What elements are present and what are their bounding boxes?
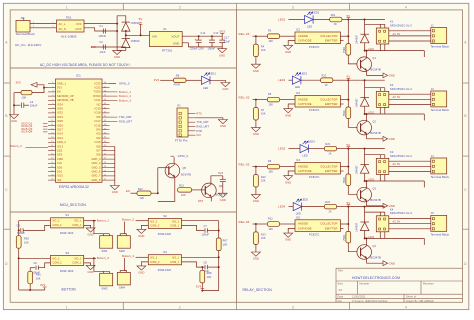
svg-text:EMITTER: EMITTER — [325, 39, 338, 43]
svg-text:3V3: 3V3 — [154, 78, 160, 82]
svg-text:NO_2: NO_2 — [53, 220, 60, 223]
svg-text:NO_1: NO_1 — [75, 220, 82, 223]
svg-text:IO2: IO2 — [57, 179, 62, 182]
svg-text:Button_4: Button_4 — [122, 254, 135, 258]
svg-text:REL-02: REL-02 — [239, 96, 250, 100]
svg-text:IO14: IO14 — [57, 133, 63, 136]
svg-text:COM_1: COM_1 — [170, 225, 180, 228]
svg-text:IO27: IO27 — [57, 129, 63, 132]
svg-text:TXD_URT: TXD_URT — [119, 115, 132, 119]
svg-text:GND_7: GND_7 — [91, 175, 101, 178]
svg-text:IO34: IO34 — [57, 103, 63, 106]
svg-text:1N5819: 1N5819 — [131, 22, 141, 25]
svg-text:Terminal Block: Terminal Block — [16, 32, 36, 36]
svg-text:IO12: IO12 — [57, 137, 63, 140]
svg-text:LED1: LED1 — [209, 72, 216, 76]
svg-text:24: 24 — [51, 179, 53, 181]
svg-text:Terminal Block: Terminal Block — [431, 108, 450, 112]
svg-text:Button_3: Button_3 — [119, 98, 131, 102]
svg-text:Button_1: Button_1 — [97, 219, 110, 223]
svg-text:GND: GND — [11, 119, 17, 123]
svg-text:1: 1 — [52, 22, 53, 24]
svg-text:GND_8: GND_8 — [91, 179, 101, 182]
svg-text:10K: 10K — [269, 40, 274, 43]
svg-text:BC547B: BC547B — [371, 255, 382, 259]
svg-text:3V3: 3V3 — [57, 87, 62, 90]
svg-text:Button_4: Button_4 — [10, 144, 22, 148]
svg-text:10K: 10K — [207, 276, 212, 279]
svg-text:R3: R3 — [268, 30, 272, 33]
svg-text:4: 4 — [405, 5, 407, 9]
svg-text:CATHODE: CATHODE — [298, 169, 312, 173]
svg-text:EMITTER: EMITTER — [325, 169, 338, 173]
svg-text:IO0: IO0 — [197, 134, 202, 137]
svg-text:COM_2: COM_2 — [150, 261, 160, 264]
svg-text:C2: C2 — [100, 41, 104, 44]
svg-text:COM_2: COM_2 — [53, 224, 63, 227]
svg-text:GND: GND — [112, 190, 118, 194]
svg-text:10K: 10K — [261, 113, 266, 116]
svg-text:GND: GND — [285, 180, 291, 184]
svg-text:GND: GND — [285, 50, 291, 54]
svg-text:10K: 10K — [269, 170, 274, 173]
svg-text:3: 3 — [52, 91, 53, 93]
svg-text:ANODE: ANODE — [298, 222, 308, 226]
svg-text:22: 22 — [51, 170, 53, 172]
svg-text:18: 18 — [51, 154, 53, 156]
svg-text:Q2: Q2 — [373, 120, 377, 123]
svg-text:5: 5 — [52, 99, 53, 101]
svg-text:NO_1: NO_1 — [172, 257, 179, 260]
svg-text:LED3: LED3 — [300, 72, 307, 75]
svg-text:3V3: 3V3 — [40, 283, 46, 287]
svg-text:26: 26 — [104, 175, 106, 177]
svg-text:3: 3 — [292, 305, 294, 309]
svg-text:ROW-1620: ROW-1620 — [60, 232, 74, 235]
svg-text:R24: R24 — [325, 201, 330, 204]
svg-text:NC: NC — [97, 103, 101, 106]
svg-text:LED1: LED1 — [278, 17, 285, 21]
svg-text:C8: C8 — [204, 262, 208, 265]
svg-text:GND_5: GND_5 — [91, 166, 101, 169]
svg-text:SRD-05VDC-SL-C: SRD-05VDC-SL-C — [390, 212, 412, 215]
svg-text:LED4: LED4 — [278, 205, 285, 209]
svg-text:1N4007: 1N4007 — [356, 98, 359, 108]
svg-text:100nF: 100nF — [17, 231, 25, 235]
svg-text:GND: GND — [389, 261, 395, 265]
svg-text:P1: P1 — [178, 105, 182, 108]
svg-text:LED4: LED4 — [308, 141, 315, 144]
svg-text:4: 4 — [52, 95, 53, 97]
svg-text:ANODE: ANODE — [298, 164, 308, 168]
svg-text:10K: 10K — [269, 228, 274, 231]
svg-text:470R: 470R — [174, 84, 181, 87]
svg-text:19: 19 — [51, 158, 53, 160]
svg-text:32: 32 — [104, 149, 106, 151]
svg-text:37: 37 — [104, 128, 106, 130]
svg-text:IO16: IO16 — [95, 124, 101, 127]
svg-text:10K: 10K — [22, 97, 27, 100]
svg-text:48: 48 — [104, 82, 106, 84]
svg-text:GND_2: GND_2 — [57, 141, 67, 144]
svg-text:CMD: CMD — [57, 158, 63, 161]
svg-text:COLLECTOR: COLLECTOR — [320, 34, 337, 38]
svg-text:IO7: IO7 — [96, 150, 101, 153]
svg-text:RXD_URT: RXD_URT — [119, 119, 132, 123]
svg-text:GND: GND — [220, 124, 226, 128]
svg-text:C17: C17 — [224, 37, 229, 40]
svg-text:SD1: SD1 — [57, 171, 63, 174]
svg-text:COM_1: COM_1 — [72, 224, 82, 227]
svg-text:10K: 10K — [261, 49, 266, 52]
svg-text:100nF: 100nF — [30, 104, 38, 107]
svg-text:Terminal Block: Terminal Block — [431, 175, 450, 179]
svg-text:41: 41 — [104, 112, 106, 114]
svg-text:A4: A4 — [339, 288, 343, 292]
svg-text:SRD-05VDC-SL-C: SRD-05VDC-SL-C — [390, 155, 412, 158]
svg-text:Terminal Block: Terminal Block — [431, 232, 450, 236]
svg-text:HOWTOELECTRONICS.COM: HOWTOELECTRONICS.COM — [352, 276, 400, 280]
svg-text:LED3: LED3 — [278, 147, 285, 151]
svg-text:IO8: IO8 — [96, 145, 101, 148]
svg-text:S2: S2 — [163, 214, 167, 218]
svg-text:PC817C: PC817C — [309, 108, 320, 112]
svg-text:GND: GND — [389, 137, 395, 141]
svg-text:C12: C12 — [201, 32, 206, 35]
svg-text:IO18: IO18 — [95, 112, 101, 115]
svg-text:R22: R22 — [322, 75, 327, 78]
svg-text:100nF: 100nF — [202, 233, 210, 236]
svg-text:IO22: IO22 — [95, 87, 101, 90]
svg-text:NO_2: NO_2 — [53, 257, 60, 260]
svg-text:AC 5V: AC 5V — [393, 163, 401, 166]
svg-text:ESP32-WROOM-32: ESP32-WROOM-32 — [59, 185, 89, 189]
svg-text:GND: GND — [88, 233, 94, 237]
svg-text:10K: 10K — [261, 237, 266, 240]
svg-text:BC547B: BC547B — [371, 198, 382, 202]
svg-text:COM_1: COM_1 — [72, 262, 82, 265]
svg-text:14: 14 — [51, 137, 53, 139]
svg-text:25: 25 — [104, 179, 106, 181]
svg-text:IC1: IC1 — [76, 74, 81, 78]
svg-text:1: 1 — [33, 22, 34, 24]
svg-text:RST: RST — [198, 200, 204, 203]
svg-text:CATHODE: CATHODE — [298, 39, 312, 43]
svg-text:1N5819: 1N5819 — [131, 40, 141, 43]
svg-text:D: D — [464, 262, 467, 266]
svg-text:IO23: IO23 — [95, 82, 101, 85]
svg-text:GND_1: GND_1 — [57, 82, 67, 85]
svg-text:SW2: SW2 — [119, 249, 125, 253]
svg-text:1: 1 — [52, 82, 53, 84]
svg-text:MCU_SECTION: MCU_SECTION — [60, 203, 86, 207]
svg-text:38: 38 — [104, 124, 106, 126]
svg-text:GND: GND — [389, 204, 395, 208]
svg-text:RT7301: RT7301 — [162, 48, 173, 52]
svg-text:AC_IN~ 110-220V: AC_IN~ 110-220V — [15, 43, 42, 47]
svg-text:R05: R05 — [24, 238, 29, 241]
svg-text:C: C — [464, 188, 467, 192]
svg-text:AC_N: AC_N — [59, 27, 67, 31]
svg-text:1: 1 — [66, 305, 68, 309]
svg-text:17: 17 — [51, 149, 53, 151]
svg-text:3: 3 — [292, 5, 294, 9]
svg-text:35: 35 — [104, 137, 106, 139]
svg-text:LED5: LED5 — [301, 199, 308, 202]
svg-text:1K: 1K — [328, 210, 331, 213]
svg-text:SW3: SW3 — [102, 287, 108, 291]
svg-text:GND: GND — [219, 53, 225, 57]
svg-text:SRD-05VDC-SL-C: SRD-05VDC-SL-C — [390, 24, 412, 27]
svg-text:C:\Users\..\ESP32V2.SchDoc: C:\Users\..\ESP32V2.SchDoc — [352, 300, 388, 303]
svg-text:ANODE: ANODE — [298, 34, 308, 38]
svg-text:COM_2: COM_2 — [150, 225, 160, 228]
svg-text:J1: J1 — [21, 16, 24, 20]
svg-text:13: 13 — [51, 133, 53, 135]
svg-text:2: 2 — [179, 305, 181, 309]
svg-text:IO15: IO15 — [95, 141, 101, 144]
svg-text:LED2: LED2 — [313, 12, 320, 15]
svg-text:NO_2: NO_2 — [150, 220, 157, 223]
svg-text:ANODE: ANODE — [298, 97, 308, 101]
svg-text:750R: 750R — [343, 110, 346, 116]
svg-text:10K: 10K — [181, 194, 186, 197]
svg-text:AC 5V: AC 5V — [393, 96, 401, 99]
svg-text:3V3: 3V3 — [219, 29, 225, 33]
svg-text:D: D — [5, 262, 8, 266]
svg-text:Title: Title — [338, 269, 344, 273]
svg-text:C3: C3 — [30, 101, 34, 104]
svg-text:R13: R13 — [261, 233, 266, 236]
svg-text:R6: R6 — [268, 93, 272, 96]
svg-text:RTS: RTS — [197, 113, 203, 116]
svg-text:GND: GND — [389, 74, 395, 78]
svg-text:1N4007: 1N4007 — [356, 165, 359, 175]
svg-text:R12: R12 — [138, 188, 143, 191]
svg-text:DTR: DTR — [197, 130, 203, 133]
svg-text:R07: R07 — [223, 240, 228, 243]
svg-text:K2: K2 — [390, 83, 394, 87]
svg-text:GPIO_0: GPIO_0 — [178, 154, 189, 158]
svg-text:EN: EN — [126, 190, 130, 193]
svg-text:23: 23 — [51, 175, 53, 177]
svg-text:REL-04: REL-04 — [239, 220, 250, 224]
svg-text:16: 16 — [51, 145, 53, 147]
svg-text:Q4: Q4 — [373, 245, 377, 248]
svg-text:GND_6: GND_6 — [91, 171, 101, 174]
svg-text:Sheet of: Sheet of — [406, 296, 416, 299]
svg-text:1N4007: 1N4007 — [356, 34, 359, 44]
svg-text:SENSOR_UP: SENSOR_UP — [57, 95, 74, 98]
svg-text:GND: GND — [222, 87, 228, 91]
svg-text:Date: Date — [338, 296, 344, 299]
svg-text:R08: R08 — [207, 272, 212, 275]
svg-text:R4: R4 — [261, 46, 265, 49]
svg-text:15: 15 — [51, 141, 53, 143]
svg-text:6: 6 — [52, 103, 53, 105]
svg-text:SD3: SD3 — [57, 154, 63, 157]
svg-text:IO2: IO2 — [96, 137, 101, 140]
svg-text:10K: 10K — [269, 103, 274, 106]
svg-text:Button_2: Button_2 — [122, 217, 135, 221]
svg-text:10K: 10K — [36, 277, 41, 280]
svg-text:R13: R13 — [179, 185, 184, 188]
svg-text:10K: 10K — [223, 244, 228, 247]
svg-text:GND: GND — [114, 55, 120, 59]
svg-text:SW4: SW4 — [119, 286, 125, 290]
svg-text:COLLECTOR: COLLECTOR — [320, 97, 337, 101]
svg-text:EMITTER: EMITTER — [325, 102, 338, 106]
svg-text:File: File — [338, 300, 343, 303]
svg-text:LED: LED — [296, 213, 301, 216]
svg-text:220uF_25V: 220uF_25V — [190, 47, 204, 50]
svg-text:S1: S1 — [66, 213, 70, 217]
svg-text:IO35: IO35 — [57, 108, 63, 111]
svg-text:Q3: Q3 — [373, 187, 377, 190]
svg-text:IO25: IO25 — [57, 120, 63, 123]
svg-text:28: 28 — [104, 166, 106, 168]
svg-text:34: 34 — [104, 141, 106, 143]
svg-text:750R: 750R — [343, 235, 346, 241]
svg-text:1: 1 — [66, 5, 68, 9]
svg-text:SRD-05VDC-SL-C: SRD-05VDC-SL-C — [390, 88, 412, 91]
svg-text:5V: 5V — [347, 14, 351, 18]
svg-text:40: 40 — [104, 116, 106, 118]
svg-text:RELAY_SECTION: RELAY_SECTION — [243, 288, 273, 292]
svg-text:GND: GND — [138, 271, 144, 275]
svg-text:VOUT: VOUT — [172, 35, 180, 39]
svg-text:LED: LED — [307, 25, 312, 28]
svg-text:2: 2 — [52, 86, 53, 88]
svg-text:IO0: IO0 — [96, 133, 101, 136]
svg-text:GND: GND — [253, 132, 259, 136]
svg-text:BC547B: BC547B — [371, 131, 382, 135]
svg-text:GND: GND — [253, 199, 259, 203]
svg-text:2: 2 — [52, 26, 53, 28]
svg-text:GND: GND — [173, 41, 179, 45]
svg-text:47: 47 — [104, 86, 106, 88]
svg-text:GND: GND — [253, 257, 259, 261]
svg-text:K3: K3 — [390, 150, 394, 154]
svg-text:GND: GND — [285, 113, 291, 117]
svg-text:IO13: IO13 — [57, 145, 63, 148]
svg-text:AC_L: AC_L — [59, 22, 67, 26]
svg-text:ROW-1620: ROW-1620 — [158, 269, 172, 272]
svg-text:11/30/2021: 11/30/2021 — [352, 296, 366, 299]
svg-text:IO26-Q4: IO26-Q4 — [21, 130, 33, 134]
svg-text:R23: R23 — [325, 143, 330, 146]
svg-text:30: 30 — [104, 158, 106, 160]
svg-text:39: 39 — [104, 120, 106, 122]
svg-text:Q1: Q1 — [373, 57, 377, 60]
svg-text:IO6: IO6 — [96, 154, 101, 157]
svg-text:NO_2: NO_2 — [150, 257, 157, 260]
svg-text:Drawn By: MR AMNAD: Drawn By: MR AMNAD — [406, 300, 434, 303]
svg-text:IO19: IO19 — [95, 108, 101, 111]
svg-text:COM_2: COM_2 — [53, 262, 63, 265]
svg-text:5V: 5V — [347, 143, 351, 147]
svg-text:K1: K1 — [390, 20, 394, 24]
svg-text:EN: EN — [57, 91, 61, 94]
svg-text:11: 11 — [51, 124, 53, 126]
svg-text:2: 2 — [33, 26, 34, 28]
svg-text:LED: LED — [295, 86, 300, 89]
svg-text:SW1: SW1 — [102, 249, 108, 253]
svg-text:8: 8 — [52, 112, 53, 114]
svg-text:IC5: IC5 — [296, 216, 301, 219]
svg-text:Size: Size — [338, 282, 344, 286]
svg-text:1K: 1K — [325, 84, 328, 87]
svg-text:ROW-1620: ROW-1620 — [60, 270, 74, 273]
svg-text:C1: C1 — [100, 25, 104, 28]
svg-text:GND_3: GND_3 — [91, 158, 101, 161]
svg-text:S3: S3 — [66, 251, 70, 255]
svg-text:Q6: Q6 — [219, 185, 223, 188]
svg-text:C: C — [5, 188, 8, 192]
svg-text:FTDI Pin: FTDI Pin — [175, 138, 188, 142]
svg-text:GND: GND — [220, 198, 226, 202]
svg-text:R10: R10 — [261, 176, 266, 179]
svg-text:750R: 750R — [343, 47, 346, 53]
svg-text:CATHODE: CATHODE — [298, 226, 312, 230]
svg-text:R7: R7 — [261, 109, 265, 112]
svg-text:12: 12 — [51, 128, 53, 130]
svg-text:BUTTON: BUTTON — [62, 287, 77, 291]
svg-text:12K: 12K — [140, 197, 145, 200]
svg-text:43: 43 — [104, 103, 106, 105]
svg-text:CATHODE: CATHODE — [298, 102, 312, 106]
svg-text:5V: 5V — [347, 201, 351, 205]
svg-text:C13: C13 — [214, 32, 219, 35]
svg-text:20: 20 — [51, 162, 53, 164]
svg-text:R21: R21 — [331, 14, 336, 17]
svg-text:ROW-1620: ROW-1620 — [158, 233, 172, 236]
svg-text:33: 33 — [104, 145, 106, 147]
svg-text:GPIO_0: GPIO_0 — [119, 82, 130, 86]
svg-text:9: 9 — [52, 116, 53, 118]
svg-text:IO32: IO32 — [57, 112, 63, 115]
svg-text:SENSOR_VB: SENSOR_VB — [57, 99, 74, 102]
svg-text:PS1: PS1 — [66, 16, 72, 20]
svg-text:S4: S4 — [163, 250, 167, 254]
svg-text:U1: U1 — [163, 27, 167, 31]
svg-text:IO5: IO5 — [96, 116, 101, 119]
svg-text:IO33: IO33 — [57, 116, 63, 119]
svg-text:AC 5V: AC 5V — [393, 221, 401, 224]
svg-text:21: 21 — [51, 166, 53, 168]
svg-text:AC 5V: AC 5V — [393, 33, 401, 36]
svg-text:-5V0: -5V0 — [75, 22, 81, 26]
svg-text:R12: R12 — [268, 217, 273, 220]
svg-text:R06: R06 — [36, 273, 41, 276]
svg-text:IC2: IC2 — [296, 29, 301, 32]
svg-text:COM_1: COM_1 — [170, 261, 180, 264]
svg-text:AC_DC HIGH VOLTAGE AREA, PLEA: AC_DC HIGH VOLTAGE AREA, PLEASE DO NOT T… — [40, 63, 130, 67]
svg-text:3V3: 3V3 — [218, 171, 224, 175]
svg-text:-5V0: -5V0 — [90, 46, 96, 49]
svg-text:SD2: SD2 — [57, 150, 63, 153]
svg-text:GND: GND — [88, 270, 94, 274]
svg-text:RXD_URT: RXD_URT — [197, 125, 210, 128]
svg-text:PC817C: PC817C — [309, 233, 320, 237]
svg-text:45: 45 — [104, 95, 106, 97]
svg-text:GND: GND — [285, 238, 291, 242]
svg-text:Q5: Q5 — [183, 167, 187, 170]
svg-text:C6: C6 — [34, 262, 38, 265]
svg-text:IO17: IO17 — [95, 120, 101, 123]
svg-text:100nF: 100nF — [99, 35, 107, 38]
svg-text:Number: Number — [360, 282, 370, 286]
